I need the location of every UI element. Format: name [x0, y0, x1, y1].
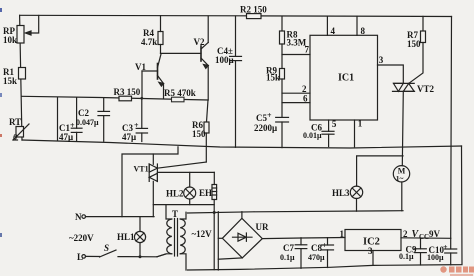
svg-text:15k: 15k — [266, 73, 280, 83]
svg-text:EH: EH — [199, 188, 212, 198]
svg-text:~12V: ~12V — [192, 229, 213, 239]
svg-text:HL1: HL1 — [117, 232, 135, 242]
svg-text:C8: C8 — [311, 243, 322, 253]
svg-text:2: 2 — [302, 84, 307, 94]
svg-text:1~: 1~ — [396, 174, 404, 183]
svg-text:R2 150: R2 150 — [240, 5, 267, 15]
svg-text:0.1μ: 0.1μ — [399, 252, 414, 261]
svg-text:0.047μ: 0.047μ — [76, 118, 99, 127]
svg-text:5: 5 — [332, 119, 337, 129]
svg-text:0.01μ: 0.01μ — [303, 131, 322, 140]
svg-text:6: 6 — [303, 94, 308, 104]
svg-text:15k: 15k — [3, 76, 17, 86]
svg-text:V1: V1 — [135, 62, 146, 72]
svg-text:8: 8 — [361, 26, 366, 36]
svg-text:L: L — [77, 252, 83, 262]
svg-text:2200μ: 2200μ — [254, 123, 277, 133]
svg-text:150: 150 — [407, 39, 421, 49]
svg-text:1: 1 — [358, 119, 363, 129]
svg-text:+: + — [443, 243, 448, 252]
svg-text:4: 4 — [331, 26, 336, 36]
svg-text:CC: CC — [419, 233, 429, 241]
svg-text:IC1: IC1 — [338, 73, 354, 84]
svg-text:VT1: VT1 — [134, 165, 149, 174]
svg-text:RT: RT — [9, 117, 21, 127]
svg-text:T: T — [172, 209, 178, 219]
svg-text:C7: C7 — [283, 243, 294, 253]
svg-text:2: 2 — [403, 229, 408, 239]
svg-text:HL2: HL2 — [166, 189, 184, 199]
svg-text:100μ: 100μ — [427, 253, 444, 262]
svg-text:3: 3 — [368, 246, 373, 256]
svg-text:C2: C2 — [78, 108, 89, 118]
svg-text:S: S — [104, 243, 109, 253]
svg-text:+: + — [267, 111, 272, 120]
svg-text:0.1μ: 0.1μ — [280, 253, 295, 262]
svg-text:100μ: 100μ — [215, 55, 234, 65]
svg-text:4.7k: 4.7k — [141, 37, 157, 47]
svg-text:470μ: 470μ — [308, 253, 325, 262]
svg-text:N: N — [75, 212, 82, 222]
svg-text:C5: C5 — [256, 113, 267, 123]
svg-text:47μ: 47μ — [122, 132, 136, 142]
svg-text:VT2: VT2 — [417, 84, 435, 94]
svg-text:7: 7 — [305, 45, 310, 55]
svg-text:+: + — [322, 241, 327, 250]
svg-text:47μ: 47μ — [59, 132, 73, 142]
svg-text:+: + — [134, 121, 139, 130]
svg-text:UR: UR — [256, 222, 269, 232]
svg-text:10k: 10k — [3, 35, 17, 45]
svg-text:3: 3 — [379, 55, 384, 65]
svg-text:1: 1 — [340, 229, 345, 239]
svg-text:9V: 9V — [429, 229, 441, 239]
svg-text:+: + — [70, 121, 75, 130]
svg-text:R3 150: R3 150 — [114, 87, 141, 97]
svg-text:150: 150 — [192, 129, 206, 139]
svg-text:~220V: ~220V — [69, 233, 94, 243]
svg-text:R5 470k: R5 470k — [164, 88, 196, 98]
svg-text:V2: V2 — [194, 37, 205, 47]
svg-text:HL3: HL3 — [332, 188, 350, 198]
